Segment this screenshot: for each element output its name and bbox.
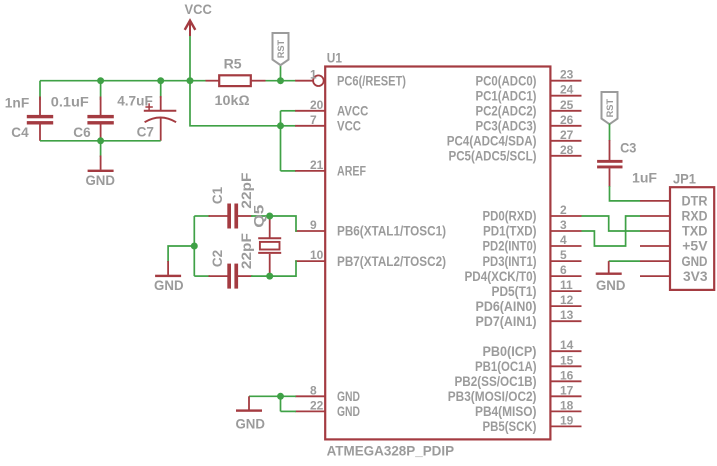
U1 right pin stubs: [550, 81, 581, 427]
svg-text:PB0(ICP): PB0(ICP): [483, 344, 537, 359]
svg-text:PB6(XTAL1/TOSC1): PB6(XTAL1/TOSC1): [337, 224, 446, 239]
junction crystal GND branch: [191, 243, 198, 250]
svg-text:GND: GND: [682, 254, 708, 269]
wire GND stub down: [100, 141, 102, 157]
wire PD1 TXD to JP1 RXD: [582, 216, 641, 246]
svg-text:GND: GND: [337, 404, 360, 419]
wire GND bottom rail: [40, 140, 161, 142]
IC U1 ATMEGA328P body: [325, 67, 550, 440]
svg-text:2: 2: [560, 203, 567, 217]
svg-text:RST: RST: [605, 99, 616, 118]
svg-text:GND: GND: [596, 277, 626, 293]
wire to pin 7 VCC: [281, 125, 297, 127]
connector JP1 body: [670, 187, 714, 290]
ground symbol GND (crystal): [155, 261, 181, 277]
svg-text:PD5(T1): PD5(T1): [492, 284, 537, 299]
U1 right pin names: [447, 73, 537, 434]
svg-text:C4: C4: [11, 124, 28, 140]
capacitor C6: [87, 81, 113, 139]
svg-text:PD7(AIN1): PD7(AIN1): [476, 314, 537, 329]
svg-text:VCC: VCC: [337, 119, 361, 134]
junction top rail VCC: [187, 77, 194, 84]
wire MCU GND net: [249, 396, 296, 411]
svg-text:C1: C1: [209, 187, 225, 204]
svg-text:11: 11: [560, 278, 573, 292]
power symbol VCC: [185, 21, 196, 36]
svg-text:20: 20: [310, 98, 324, 112]
svg-text:DTR: DTR: [682, 194, 708, 209]
pin 1 stub with inversion circle: [295, 75, 324, 86]
svg-text:+5V: +5V: [682, 239, 707, 254]
wire VCC top rail: [40, 80, 206, 82]
svg-text:25: 25: [560, 98, 574, 112]
svg-text:16: 16: [560, 368, 574, 382]
svg-text:TXD: TXD: [682, 224, 708, 239]
net flag RST (right): [602, 92, 618, 124]
wire net RST to pin 1: [266, 80, 297, 82]
wire C3 to JP1 DTR: [610, 186, 641, 201]
svg-text:C3: C3: [620, 139, 636, 155]
wire XTAL1 net top: [194, 216, 296, 231]
junction RST / R5 / pin1: [277, 77, 284, 84]
svg-text:4.7uF: 4.7uF: [117, 93, 153, 109]
wire crystal left vertical: [193, 216, 195, 276]
JP1 pin labels: [682, 194, 708, 284]
capacitor C3: [597, 140, 622, 187]
svg-text:PD6(AIN0): PD6(AIN0): [476, 299, 537, 314]
svg-text:9: 9: [310, 218, 317, 232]
svg-text:PC0(ADC0): PC0(ADC0): [476, 73, 537, 88]
svg-text:U1: U1: [327, 49, 342, 65]
svg-text:13: 13: [560, 308, 574, 322]
U1 left pin numbers: [310, 68, 324, 413]
ground symbol GND (capacitor bank): [88, 156, 114, 173]
svg-text:10kΩ: 10kΩ: [215, 92, 250, 108]
capacitor C4: [27, 81, 53, 141]
U1 left pin names: [337, 73, 446, 419]
svg-text:VCC: VCC: [185, 1, 212, 17]
svg-text:PD2(INT0): PD2(INT0): [483, 239, 537, 254]
svg-text:26: 26: [560, 113, 574, 127]
wire VCC feed to AVCC/VCC: [190, 81, 281, 126]
capacitor C2: [227, 264, 231, 289]
svg-text:3V3: 3V3: [683, 269, 708, 284]
net flag RST (left): [273, 33, 289, 65]
svg-text:15: 15: [560, 353, 574, 367]
svg-text:3: 3: [560, 218, 567, 232]
wire AVCC/VCC/AREF vertical: [280, 111, 282, 171]
svg-text:7: 7: [310, 113, 317, 127]
resistor R5: [206, 75, 266, 86]
svg-text:22: 22: [310, 398, 324, 412]
capacitor C1: [227, 204, 231, 229]
svg-text:27: 27: [560, 128, 574, 142]
svg-text:22pF: 22pF: [238, 172, 254, 208]
svg-text:AREF: AREF: [337, 164, 366, 179]
svg-text:PC6(/RESET): PC6(/RESET): [337, 73, 406, 88]
svg-text:PC2(ADC2): PC2(ADC2): [476, 104, 537, 119]
svg-text:5: 5: [560, 248, 567, 262]
junction bottom rail C6: [97, 137, 104, 144]
svg-text:R5: R5: [224, 56, 242, 72]
svg-text:GND: GND: [85, 172, 115, 188]
wire RST flag drop: [280, 64, 282, 81]
svg-text:GND: GND: [154, 277, 184, 293]
svg-text:C2: C2: [209, 250, 225, 267]
svg-text:PB3(MOSI/OC2): PB3(MOSI/OC2): [448, 389, 537, 404]
svg-text:1uF: 1uF: [632, 170, 657, 186]
svg-text:17: 17: [560, 383, 574, 397]
svg-text:6: 6: [560, 263, 567, 277]
svg-text:ATMEGA328P_PDIP: ATMEGA328P_PDIP: [327, 443, 455, 459]
wire XTAL2 net bottom: [194, 261, 296, 276]
svg-text:PB7(XTAL2/TOSC2): PB7(XTAL2/TOSC2): [337, 254, 446, 269]
ground symbol GND (MCU): [236, 396, 262, 412]
svg-text:PD1(TXD): PD1(TXD): [483, 224, 537, 239]
junction crystal top: [266, 213, 273, 220]
svg-text:GND: GND: [337, 389, 360, 404]
polarized capacitor C7: [144, 81, 177, 141]
svg-text:PC5(ADC5/SCL): PC5(ADC5/SCL): [449, 149, 537, 164]
svg-text:4: 4: [560, 233, 567, 247]
svg-text:Q5: Q5: [251, 204, 267, 227]
JP1 pin stubs: [640, 201, 670, 276]
junction top rail C7: [157, 77, 164, 84]
wire PD0 RXD to JP1 TXD: [582, 216, 641, 231]
svg-text:21: 21: [310, 158, 324, 172]
svg-text:PC1(ADC1): PC1(ADC1): [476, 88, 537, 103]
svg-text:PD0(RXD): PD0(RXD): [483, 209, 537, 224]
wire RST flag to C3: [609, 124, 611, 142]
svg-text:C7: C7: [137, 124, 154, 140]
svg-text:1: 1: [310, 68, 317, 82]
ground symbol GND (JP1): [596, 261, 622, 275]
svg-text:14: 14: [560, 338, 574, 352]
svg-text:PD3(INT1): PD3(INT1): [483, 254, 537, 269]
U1 right pin numbers: [560, 68, 574, 428]
svg-text:23: 23: [560, 68, 574, 82]
svg-text:PD4(XCK/T0): PD4(XCK/T0): [465, 269, 537, 284]
wire to pin 21 AREF: [281, 170, 297, 172]
svg-text:18: 18: [560, 398, 574, 412]
svg-text:GND: GND: [235, 415, 265, 431]
crystal Q5: [258, 219, 281, 273]
svg-text:28: 28: [560, 143, 574, 157]
wire VCC vertical drop: [189, 36, 191, 81]
junction crystal bottom: [266, 273, 273, 280]
svg-text:22pF: 22pF: [238, 233, 254, 269]
svg-text:RST: RST: [276, 40, 287, 59]
svg-text:8: 8: [310, 383, 317, 397]
svg-text:JP1: JP1: [673, 170, 696, 186]
svg-text:1nF: 1nF: [5, 94, 30, 110]
svg-text:24: 24: [560, 83, 574, 97]
svg-text:PB4(MISO): PB4(MISO): [475, 404, 537, 419]
svg-text:PB5(SCK): PB5(SCK): [483, 419, 537, 434]
svg-text:RXD: RXD: [682, 209, 708, 224]
svg-text:PB2(SS/OC1B): PB2(SS/OC1B): [455, 374, 537, 389]
svg-text:0.1uF: 0.1uF: [51, 94, 89, 110]
junction AVCC/VCC feed: [277, 122, 284, 129]
svg-text:AVCC: AVCC: [337, 104, 368, 119]
svg-text:PC3(ADC3): PC3(ADC3): [476, 119, 537, 134]
U1 left pin stubs: [295, 111, 325, 412]
svg-text:12: 12: [560, 293, 574, 307]
wire to pin 20 AVCC: [281, 110, 297, 112]
svg-text:C6: C6: [73, 124, 90, 140]
wire JP1 GND net: [609, 260, 640, 262]
wire crystal GND branch: [168, 246, 194, 262]
junction top rail C6: [97, 77, 104, 84]
junction MCU GND: [277, 393, 284, 400]
svg-text:10: 10: [310, 248, 324, 262]
svg-text:19: 19: [560, 413, 574, 427]
svg-text:PC4(ADC4/SDA): PC4(ADC4/SDA): [447, 134, 537, 149]
svg-text:PB1(OC1A): PB1(OC1A): [475, 359, 537, 374]
